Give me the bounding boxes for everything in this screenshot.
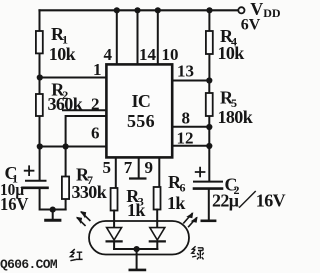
resistor R1 <box>36 31 43 53</box>
wire R4 column <box>208 10 210 80</box>
terminal VDD open circle <box>238 7 244 13</box>
svg-text:330k: 330k <box>72 182 107 202</box>
wire C1 column <box>39 147 41 181</box>
svg-text:12: 12 <box>177 129 194 148</box>
svg-text:180k: 180k <box>218 107 253 127</box>
resistor R6 <box>154 187 161 210</box>
resistor R4 <box>206 31 213 54</box>
light arrow left 2 <box>76 217 85 226</box>
resistor R3 <box>111 188 118 211</box>
svg-text:6V: 6V <box>241 16 261 33</box>
wire pin 4 <box>116 10 118 65</box>
wire R3 to red LED anode <box>113 211 115 228</box>
svg-text:16V: 16V <box>0 194 29 214</box>
wire cathode connector <box>114 248 157 250</box>
wire pin 7 <box>138 158 140 177</box>
node R4 rail <box>206 7 212 13</box>
capacitor C2 plus sign <box>196 168 205 177</box>
ground C2 symbol <box>202 220 215 223</box>
svg-text:1k: 1k <box>127 200 145 220</box>
wire pin 14 <box>137 10 139 65</box>
wire green cathode stub <box>156 243 158 250</box>
svg-text:6: 6 <box>91 124 100 143</box>
capacitor C1 bottom plate <box>23 187 48 190</box>
svg-text:1: 1 <box>93 60 102 79</box>
wire R2 column <box>39 78 41 147</box>
resistor R5 <box>206 93 213 116</box>
capacitor C1 top plate <box>26 180 46 182</box>
capacitor C1 plus sign <box>25 166 34 175</box>
ground LED symbol <box>130 269 145 272</box>
LED red triangle <box>107 228 122 240</box>
wire LED ground stub <box>136 249 138 268</box>
svg-text:556: 556 <box>127 111 155 131</box>
node pin12 <box>206 143 212 149</box>
wire C2 column <box>208 127 210 181</box>
node pin4 <box>114 7 120 13</box>
resistor R2 <box>36 94 43 116</box>
LED green triangle <box>150 228 165 240</box>
wire pin 6 node horizontal <box>40 146 108 148</box>
capacitor C2 bottom plate <box>194 187 222 190</box>
wire red cathode stub <box>113 243 115 250</box>
wire pin 2 upper <box>63 109 107 111</box>
svg-text:10: 10 <box>162 45 179 64</box>
svg-text:360k: 360k <box>48 94 83 114</box>
LED package oval <box>89 221 189 255</box>
node pin14 <box>134 7 140 13</box>
svg-text:5: 5 <box>103 158 112 177</box>
svg-text:DD: DD <box>263 6 281 20</box>
wire pin 13 <box>172 80 210 82</box>
resistor R7 <box>62 177 69 200</box>
wire R7 column <box>65 147 67 210</box>
light arrow right 1 <box>184 212 194 223</box>
svg-text:10k: 10k <box>49 44 76 64</box>
svg-text:22μ／16V: 22μ／16V <box>212 190 286 210</box>
wire C1 bottom <box>40 189 66 210</box>
ground pin 7 symbol <box>130 177 145 179</box>
wire top supply rail <box>40 9 238 11</box>
svg-text:8: 8 <box>182 108 191 127</box>
wire pin 2 loop lower <box>66 116 107 147</box>
node junction R2/C1 <box>37 143 43 149</box>
wire pin 10 <box>157 10 159 65</box>
svg-text:4: 4 <box>104 45 113 64</box>
svg-text:7: 7 <box>124 158 133 177</box>
node junction R1/R2/pin1 <box>37 74 43 80</box>
wire pin 1 horizontal <box>40 77 107 79</box>
wire pin 9 <box>158 158 160 187</box>
LED red cathode bar <box>107 240 122 242</box>
light arrow right 2 <box>189 217 198 227</box>
node pin8/R5/C2 <box>206 124 212 130</box>
svg-text:10k: 10k <box>218 43 245 63</box>
svg-text:IC: IC <box>132 91 151 111</box>
node junction loop/R7 <box>63 143 69 149</box>
light arrow left 1 <box>80 211 90 220</box>
label green (lv) glyph <box>192 246 204 259</box>
node cathode junction <box>134 246 140 252</box>
wire left drop from rail through R1 position <box>39 10 41 77</box>
wire pin 12 <box>172 145 210 147</box>
capacitor C2 top plate <box>194 181 222 183</box>
wire C2 bottom <box>208 190 210 219</box>
svg-text:14: 14 <box>139 45 157 64</box>
svg-text:Q606.COM: Q606.COM <box>0 258 57 272</box>
ground left symbol <box>52 210 54 219</box>
IC U1 556 box <box>106 64 172 157</box>
svg-text:1k: 1k <box>167 193 185 213</box>
node pin10 <box>155 7 161 13</box>
svg-text:9: 9 <box>145 158 154 177</box>
LED green cathode bar <box>150 240 165 242</box>
svg-text:13: 13 <box>177 61 194 80</box>
wire pin 5 <box>115 158 117 188</box>
node junction ground left <box>50 207 56 213</box>
node pin13/R4/R5 <box>206 77 212 83</box>
label red (hong) glyph <box>70 249 82 261</box>
wire pin 8 <box>172 126 210 128</box>
svg-text:2: 2 <box>91 95 100 114</box>
wire R6 to green LED anode <box>156 210 158 228</box>
wire R5 column <box>208 81 210 128</box>
